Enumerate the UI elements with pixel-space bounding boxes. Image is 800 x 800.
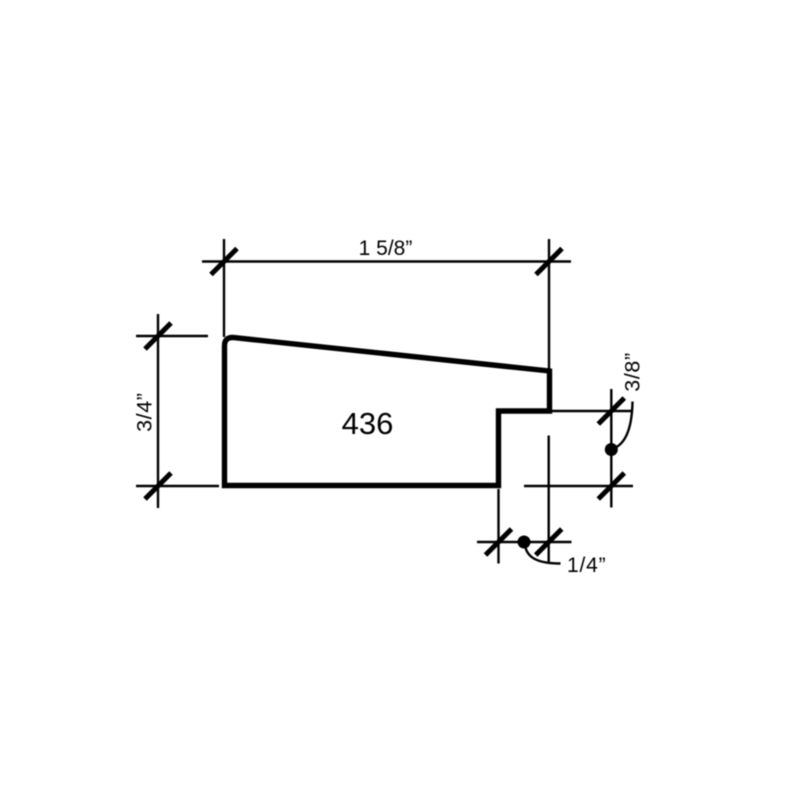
dim 3/4 extension line top <box>136 335 208 337</box>
dim 3/4 tick top <box>145 323 171 349</box>
svg-text:3/4”: 3/4” <box>132 392 156 431</box>
dim 3/8 leader dot <box>605 443 618 456</box>
dim 1/4 leader dot <box>518 536 531 549</box>
dim 1/4 dimension line <box>477 541 572 543</box>
dim 3/8 tick top <box>598 398 624 424</box>
dim 3/8 tick bottom <box>598 473 624 499</box>
dim 3/4 extension line bottom <box>136 485 219 487</box>
dim 3/4 tick bottom <box>145 473 171 499</box>
dim 1 5/8 dimension line <box>202 260 571 262</box>
svg-text:436: 436 <box>342 406 394 441</box>
dim 3/4 dimension line <box>157 314 159 508</box>
svg-text:3/8”: 3/8” <box>621 352 645 391</box>
svg-text:1 5/8”: 1 5/8” <box>359 237 413 260</box>
svg-text:1/4”: 1/4” <box>567 554 606 577</box>
dim 1/4 extension line left <box>497 489 499 564</box>
dim 3/8 extension line top <box>552 410 633 412</box>
dim 3/8 extension line bottom <box>524 485 633 487</box>
dim 1/4 leader curve <box>525 543 561 564</box>
dim 1/4 extension line right <box>548 436 550 564</box>
dim 1 5/8 extension line left <box>223 239 225 337</box>
dim 3/8 leader curve <box>612 402 633 450</box>
dim 1/4 tick left <box>486 529 512 555</box>
dim 3/8 dimension line <box>610 389 612 508</box>
dim 1/4 tick right <box>536 529 562 555</box>
dim 1 5/8 tick left <box>211 249 237 275</box>
dim 1 5/8 extension line right <box>548 239 550 374</box>
moulding profile outline 436 <box>225 338 550 486</box>
dim 1 5/8 tick right <box>536 249 562 275</box>
